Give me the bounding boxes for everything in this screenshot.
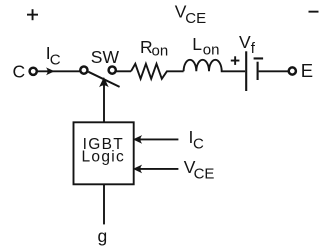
svg-text:CE: CE	[194, 166, 215, 183]
svg-text:E: E	[301, 60, 313, 81]
svg-text:on: on	[203, 42, 220, 59]
svg-text:on: on	[152, 43, 169, 60]
svg-text:L: L	[192, 34, 202, 54]
svg-text:V: V	[239, 32, 251, 52]
svg-text:CE: CE	[185, 10, 206, 27]
svg-text:f: f	[251, 40, 256, 57]
svg-text:C: C	[50, 52, 61, 69]
svg-text:g: g	[98, 226, 108, 246]
svg-text:C: C	[193, 136, 204, 153]
svg-text:C: C	[13, 61, 26, 81]
svg-text:Logic: Logic	[82, 149, 126, 166]
svg-text:SW: SW	[91, 47, 120, 67]
